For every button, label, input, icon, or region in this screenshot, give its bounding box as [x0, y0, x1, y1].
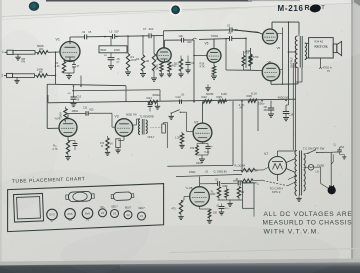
- V2b cathode leads: [202, 142, 204, 144]
- svg-text:6EU7: 6EU7: [138, 206, 145, 210]
- svg-text:MEASURLD TO CHASSIS: MEASURLD TO CHASSIS: [263, 220, 353, 227]
- filter cap C15 40/450: [270, 101, 272, 108]
- svg-text:2: 2: [2, 73, 4, 77]
- tone pot R4 1M: [142, 36, 144, 55]
- svg-text:.02: .02: [215, 178, 219, 181]
- svg-text:6EU7: 6EU7: [125, 205, 132, 209]
- coupling cap C9 .02: [229, 36, 231, 41]
- reverb transformer T1 core: [141, 119, 143, 135]
- reverb transformer T1 secondary: [146, 120, 148, 134]
- wire feedback horizontal: [56, 84, 127, 85]
- V5 grid wire from node: [194, 55, 207, 57]
- svg-text:1.2K: 1.2K: [175, 136, 181, 140]
- chart tube socket 6V6 V6: [65, 209, 76, 220]
- cathode resistor R2 2.2K: [62, 62, 65, 74]
- ground for J1 cable shield: [15, 56, 20, 58]
- wire R6 to V1 grid: [48, 51, 60, 53]
- interstage cap C14: [187, 56, 189, 62]
- cap from bus to reverb: [149, 103, 151, 105]
- reverb switch: [171, 113, 172, 114]
- divider resistor 1M: [237, 187, 240, 198]
- coupling cap C7 .002: [148, 33, 150, 38]
- svg-text:C5: C5: [88, 30, 92, 34]
- bus left drop: [47, 95, 49, 103]
- node wire down from C8 to bus: [193, 40, 195, 102]
- wire reverb to switch node: [164, 121, 168, 123]
- svg-text:2.2K: 2.2K: [154, 66, 160, 70]
- cathode resistor 1K box: [116, 139, 120, 148]
- power transformer secondary winding: [304, 154, 306, 191]
- svg-text:.05A: .05A: [339, 146, 344, 149]
- interstage resistor R13: [179, 59, 182, 71]
- bus series resistor R21 680: [148, 100, 158, 103]
- V8 plate lead: [199, 177, 201, 187]
- svg-text:6V6: 6V6: [67, 212, 73, 216]
- shield vertical down to half V8 stage: [46, 84, 48, 128]
- svg-text:180K: 180K: [210, 194, 216, 196]
- svg-text:.01: .01: [181, 92, 185, 96]
- output tube V5 6V6 upper: [263, 29, 278, 44]
- speaker return wire with arrow: [320, 58, 322, 65]
- ground for J2 cable shield: [14, 79, 19, 81]
- svg-text:560K: 560K: [100, 48, 106, 52]
- cathode bypass cap C2: [72, 64, 76, 66]
- svg-text:1M: 1M: [146, 59, 150, 63]
- volume tone control box 560K 100K: [110, 37, 112, 46]
- wire C9 to output grids node: [232, 37, 246, 39]
- lower shelf wire A: [167, 164, 233, 167]
- svg-text:R6: R6: [40, 47, 44, 51]
- bus series resistor R22 600M: [203, 100, 212, 103]
- svg-text:L₂: L₂: [257, 183, 259, 186]
- wire C11 to V3 grid: [88, 112, 112, 114]
- speaker box: [309, 38, 334, 58]
- bottom dark photo edge: [0, 262, 360, 273]
- green thumbtack dot left: [29, 2, 39, 11]
- svg-text:R₂: R₂: [211, 190, 214, 193]
- svg-text:.01: .01: [191, 61, 195, 65]
- svg-text:M-216: M-216: [278, 4, 304, 13]
- svg-text:TRANS.: TRANS.: [293, 58, 297, 68]
- svg-text:V6: V6: [68, 218, 72, 222]
- output transformer T2 primary: [295, 36, 297, 68]
- lower plate wire to output transformer: [270, 81, 272, 85]
- filter can oval small: [111, 192, 134, 201]
- resistor 470M branch: [106, 138, 109, 150]
- V1 cathode lead: [69, 57, 71, 61]
- V4 plate lead and wire: [164, 40, 166, 48]
- soft shading patches: [0, 170, 150, 273]
- screen resistor R30 470K: [249, 54, 252, 66]
- V4 cathode resistors: [164, 59, 166, 63]
- fuse: [308, 165, 314, 171]
- coupling cap C6 .01F: [112, 34, 114, 39]
- svg-text:R₄ 2Ω 8A: R₄ 2Ω 8A: [235, 163, 246, 167]
- svg-text:R7: R7: [39, 70, 43, 74]
- volume pot R3 470K: [127, 36, 129, 53]
- svg-text:1K: 1K: [110, 142, 113, 146]
- power transformer core: [299, 151, 301, 196]
- AC plug: [328, 186, 336, 194]
- wire to AC plug right: [330, 152, 332, 186]
- svg-text:180Ω: 180Ω: [189, 170, 195, 174]
- svg-text:V3: V3: [115, 114, 119, 118]
- V8 grid wire: [184, 196, 190, 198]
- svg-text:R4: R4: [136, 57, 140, 61]
- svg-text:V5: V5: [205, 42, 209, 46]
- shielded cable from J1: [13, 51, 35, 55]
- wire drop from bus x233: [232, 101, 234, 165]
- svg-text:T: T: [321, 5, 325, 11]
- wire upper coupling bus to output grid: [164, 29, 230, 32]
- bus series resistor R26 8.1K: [248, 99, 257, 102]
- svg-text:.01F: .01F: [114, 30, 120, 34]
- svg-text:8.1K: 8.1K: [251, 92, 257, 96]
- upper sheet band above paper edge: [0, 0, 360, 16]
- svg-text:470K: 470K: [253, 55, 259, 59]
- main B+ bus: [48, 99, 296, 103]
- filter can oval large: [66, 191, 95, 202]
- wire mid shelf: [72, 90, 160, 91]
- chart tube socket 5Y3 V7: [47, 209, 58, 220]
- speaker magnet and cone: [333, 44, 337, 53]
- grid resistor 100K: [64, 109, 67, 121]
- V2b plate lead to bus: [202, 102, 204, 124]
- svg-text:R13: R13: [174, 62, 179, 66]
- small ground above bus: [207, 85, 209, 88]
- grid resistor R19: [242, 56, 245, 67]
- heater arrows: [288, 177, 295, 180]
- power transformer primary winding: [295, 151, 297, 196]
- left photo edge: [0, 0, 2, 273]
- control box cap to ground: [110, 53, 112, 57]
- svg-text:R9: R9: [22, 60, 26, 64]
- wire stub from bus x258: [257, 101, 259, 131]
- grid resistor bottoms wire: [243, 66, 245, 70]
- V8 bypass cap .01: [219, 206, 225, 208]
- wire C5 to C6: [87, 35, 113, 37]
- svg-text:/W: /W: [240, 106, 244, 110]
- svg-text:V5: V5: [86, 218, 90, 222]
- cathode electrolytic plus: [207, 144, 209, 147]
- svg-text:240v: 240v: [196, 161, 203, 165]
- on-off switch: [304, 152, 308, 155]
- svg-text:2.7K: 2.7K: [53, 148, 58, 151]
- resistor R7 100K: [35, 75, 37, 77]
- svg-text:M: M: [101, 145, 103, 148]
- resistor R5 to bus: [152, 54, 155, 72]
- triode V4: [157, 48, 171, 62]
- svg-text:150: 150: [190, 147, 195, 150]
- svg-text:.01: .01: [82, 30, 86, 34]
- svg-text:150: 150: [213, 212, 218, 215]
- chart tube socket 6V6 V5: [82, 208, 93, 219]
- svg-text:2.2K: 2.2K: [55, 64, 61, 68]
- coupling cap C5 .01: [84, 35, 86, 40]
- svg-text:V2: V2: [126, 213, 130, 217]
- input bus vertical: [55, 52, 57, 84]
- cathode ground: [64, 72, 74, 74]
- output transformer core: [299, 36, 301, 68]
- cathode ground: [197, 154, 208, 156]
- V5 plate lead to top bus: [213, 39, 215, 49]
- svg-text:4.7K: 4.7K: [200, 64, 206, 68]
- lower shelf wire B: [176, 174, 242, 176]
- svg-text:1: 1: [2, 50, 4, 54]
- paper top edge crease: [0, 3, 360, 17]
- V8 cathode resistor 150: [208, 209, 211, 218]
- chart box: [8, 184, 164, 232]
- V7 cathode lead down: [277, 175, 279, 182]
- V3 plate wire to T1: [133, 124, 137, 126]
- svg-text:400Ω M: 400Ω M: [278, 96, 289, 100]
- cap C8 .002 with 100 label: [181, 38, 183, 43]
- svg-text:-.05: -.05: [116, 58, 121, 61]
- B+ dropping resistor 2 ohm: [233, 169, 241, 171]
- svg-text:R: R: [305, 5, 310, 12]
- svg-text:6V6: 6V6: [85, 211, 91, 215]
- component box outline: [243, 183, 255, 209]
- svg-text:.02: .02: [228, 31, 232, 35]
- svg-text:R34 4Ω: R34 4Ω: [315, 39, 324, 43]
- wire switch to V2b grid: [180, 111, 186, 113]
- top bus wire at driver: [199, 38, 230, 41]
- svg-text:100: 100: [179, 34, 184, 38]
- wire drop from bus x242: [241, 101, 243, 170]
- svg-text:C₁: C₁: [334, 143, 337, 146]
- svg-text:3Y: 3Y: [327, 69, 330, 73]
- bus series resistor R25: [218, 100, 226, 103]
- HV line from output transformer down: [301, 68, 303, 83]
- svg-text:1.8: 1.8: [315, 171, 319, 174]
- svg-text:.01: .01: [235, 178, 239, 181]
- vertical to volume node: [125, 86, 127, 102]
- svg-text:V4: V4: [101, 211, 105, 215]
- shielded cable from J2: [13, 74, 35, 78]
- svg-text:R19: R19: [245, 52, 250, 55]
- svg-text:5-40: 5-40: [205, 151, 210, 154]
- B+ center tap vertical wire: [288, 22, 290, 100]
- right photo edge: [353, 0, 360, 273]
- svg-text:ONLY: ONLY: [148, 135, 155, 139]
- ink blob scribble: [309, 4, 321, 13]
- screen grid feed line: [282, 28, 284, 86]
- svg-text:V7: V7: [50, 219, 54, 223]
- V7 plate top lead: [277, 151, 279, 157]
- V8 cathode lead: [199, 206, 201, 209]
- svg-text:600M: 600M: [206, 92, 214, 96]
- wire shelf to V8a corner: [47, 83, 55, 85]
- wire C6 to C7: [115, 35, 149, 38]
- resistor R6 500K: [35, 51, 37, 53]
- svg-text:½-V8: ½-V8: [186, 186, 193, 190]
- svg-text:620K: 620K: [222, 186, 228, 188]
- wire V1 plate to C5: [70, 36, 85, 38]
- divider bottoms wire: [218, 199, 243, 201]
- divider resistor 620K: [225, 189, 228, 198]
- svg-text:T.C ON-OFF SW: T.C ON-OFF SW: [303, 147, 325, 151]
- line cap ground: [340, 153, 345, 155]
- svg-text:C16: C16: [289, 112, 294, 116]
- svg-text:100K: 100K: [59, 112, 63, 119]
- switch ground: [170, 113, 172, 116]
- svg-text:.01: .01: [205, 170, 209, 174]
- svg-text:700Ω: 700Ω: [211, 34, 219, 38]
- secondary wires to speaker: [305, 42, 309, 45]
- lower grid wire: [226, 69, 253, 71]
- svg-text:R21: R21: [147, 96, 153, 100]
- power transformer square in chart: [13, 193, 43, 222]
- svg-text:+: +: [211, 144, 213, 148]
- wire C7 to V4 grid branch: [151, 35, 163, 37]
- upper plate wire to output transformer: [270, 28, 272, 30]
- svg-text:V1: V1: [56, 38, 60, 42]
- upper grid wire: [232, 30, 258, 33]
- reverb transformer T1 primary: [139, 119, 141, 135]
- svg-text:C7: C7: [143, 27, 147, 31]
- V2 plate wire up: [67, 114, 69, 119]
- fuse wires: [304, 167, 309, 169]
- output transformer secondary: [305, 43, 307, 60]
- transformer bottom ground: [298, 196, 300, 199]
- svg-text:.02: .02: [227, 24, 231, 28]
- bottom pre-edge shading: [0, 259, 360, 266]
- svg-text:470Ω A: 470Ω A: [323, 66, 332, 70]
- svg-text:V7: V7: [264, 152, 268, 156]
- svg-text:VOICE COIL: VOICE COIL: [314, 46, 329, 49]
- svg-text:C₁ 190Ω 8A: C₁ 190Ω 8A: [214, 169, 228, 173]
- filter cap C16: [288, 100, 290, 105]
- grid stopper vertical wire: [245, 38, 247, 68]
- svg-text:250v: 250v: [258, 102, 265, 106]
- divider resistor 180K: [217, 187, 220, 198]
- svg-text:→DC+: →DC+: [223, 208, 230, 210]
- phase splitter vertical wire: [225, 39, 227, 70]
- svg-text:6.8K: 6.8K: [221, 92, 227, 96]
- svg-text:600Ω 7W: 600Ω 7W: [126, 112, 137, 116]
- half V8 cathode bypass cap: [68, 140, 75, 142]
- vertical from V1 ground region: [80, 76, 82, 87]
- paper bottom edge faint line: [170, 249, 360, 253]
- dashed wire to cathodes: [263, 181, 288, 186]
- V7 leads to transformer: [286, 159, 295, 163]
- svg-text:180Ω: 180Ω: [72, 109, 79, 113]
- dark sliver along very top edge: [46, 0, 252, 2]
- cathode resistor 150: [196, 144, 198, 146]
- svg-text:680Ω: 680Ω: [153, 93, 161, 97]
- svg-text:V1: V1: [140, 214, 144, 218]
- svg-text:WITH V.T.V.M.: WITH V.T.V.M.: [264, 229, 321, 236]
- svg-text:.002: .002: [148, 27, 154, 31]
- grid resistor R20: [249, 56, 252, 67]
- svg-text:KPS 2: KPS 2: [272, 190, 281, 194]
- coupling cap C11 .002: [85, 111, 87, 116]
- svg-text:450: 450: [264, 108, 269, 112]
- svg-text:ALL DC VOLTAGES ARE: ALL DC VOLTAGES ARE: [264, 211, 353, 218]
- V8 output caps row: [200, 183, 218, 185]
- paper speckle noise: [115, 55, 116, 56]
- ground stub below bus near reverb: [157, 102, 159, 106]
- svg-text:6EU7: 6EU7: [111, 205, 118, 209]
- V8 bias resistor 470: [181, 199, 184, 202]
- svg-text:V5: V5: [277, 46, 281, 50]
- grid resistor to ground: [180, 134, 183, 144]
- V3 cathode network: [123, 136, 125, 140]
- svg-text:.002: .002: [89, 108, 95, 112]
- wire R7 to junction: [48, 74, 56, 76]
- reverb spring dotted line: [149, 126, 152, 129]
- V1 plate lead: [69, 37, 71, 44]
- half V8 cathode resistor 2.7K: [67, 137, 69, 141]
- bus series cap C12: [179, 100, 181, 104]
- svg-text:470: 470: [172, 208, 177, 211]
- wire C8 to dropping node: [184, 39, 194, 41]
- bias resistor horizontal: [233, 180, 242, 182]
- green thumbtack dot center with halo: [169, 4, 182, 17]
- svg-text:100K: 100K: [114, 48, 120, 52]
- svg-text:C11: C11: [83, 106, 88, 110]
- speaker return verticals: [292, 63, 294, 150]
- reverb pickup element: [162, 124, 166, 133]
- svg-text:5Y3: 5Y3: [49, 213, 55, 217]
- svg-text:T1 REVERB: T1 REVERB: [140, 115, 154, 119]
- decoupling cap C10: [73, 85, 75, 87]
- V5 cathode resistor 4.7K: [213, 63, 215, 67]
- svg-text:V3: V3: [113, 212, 117, 216]
